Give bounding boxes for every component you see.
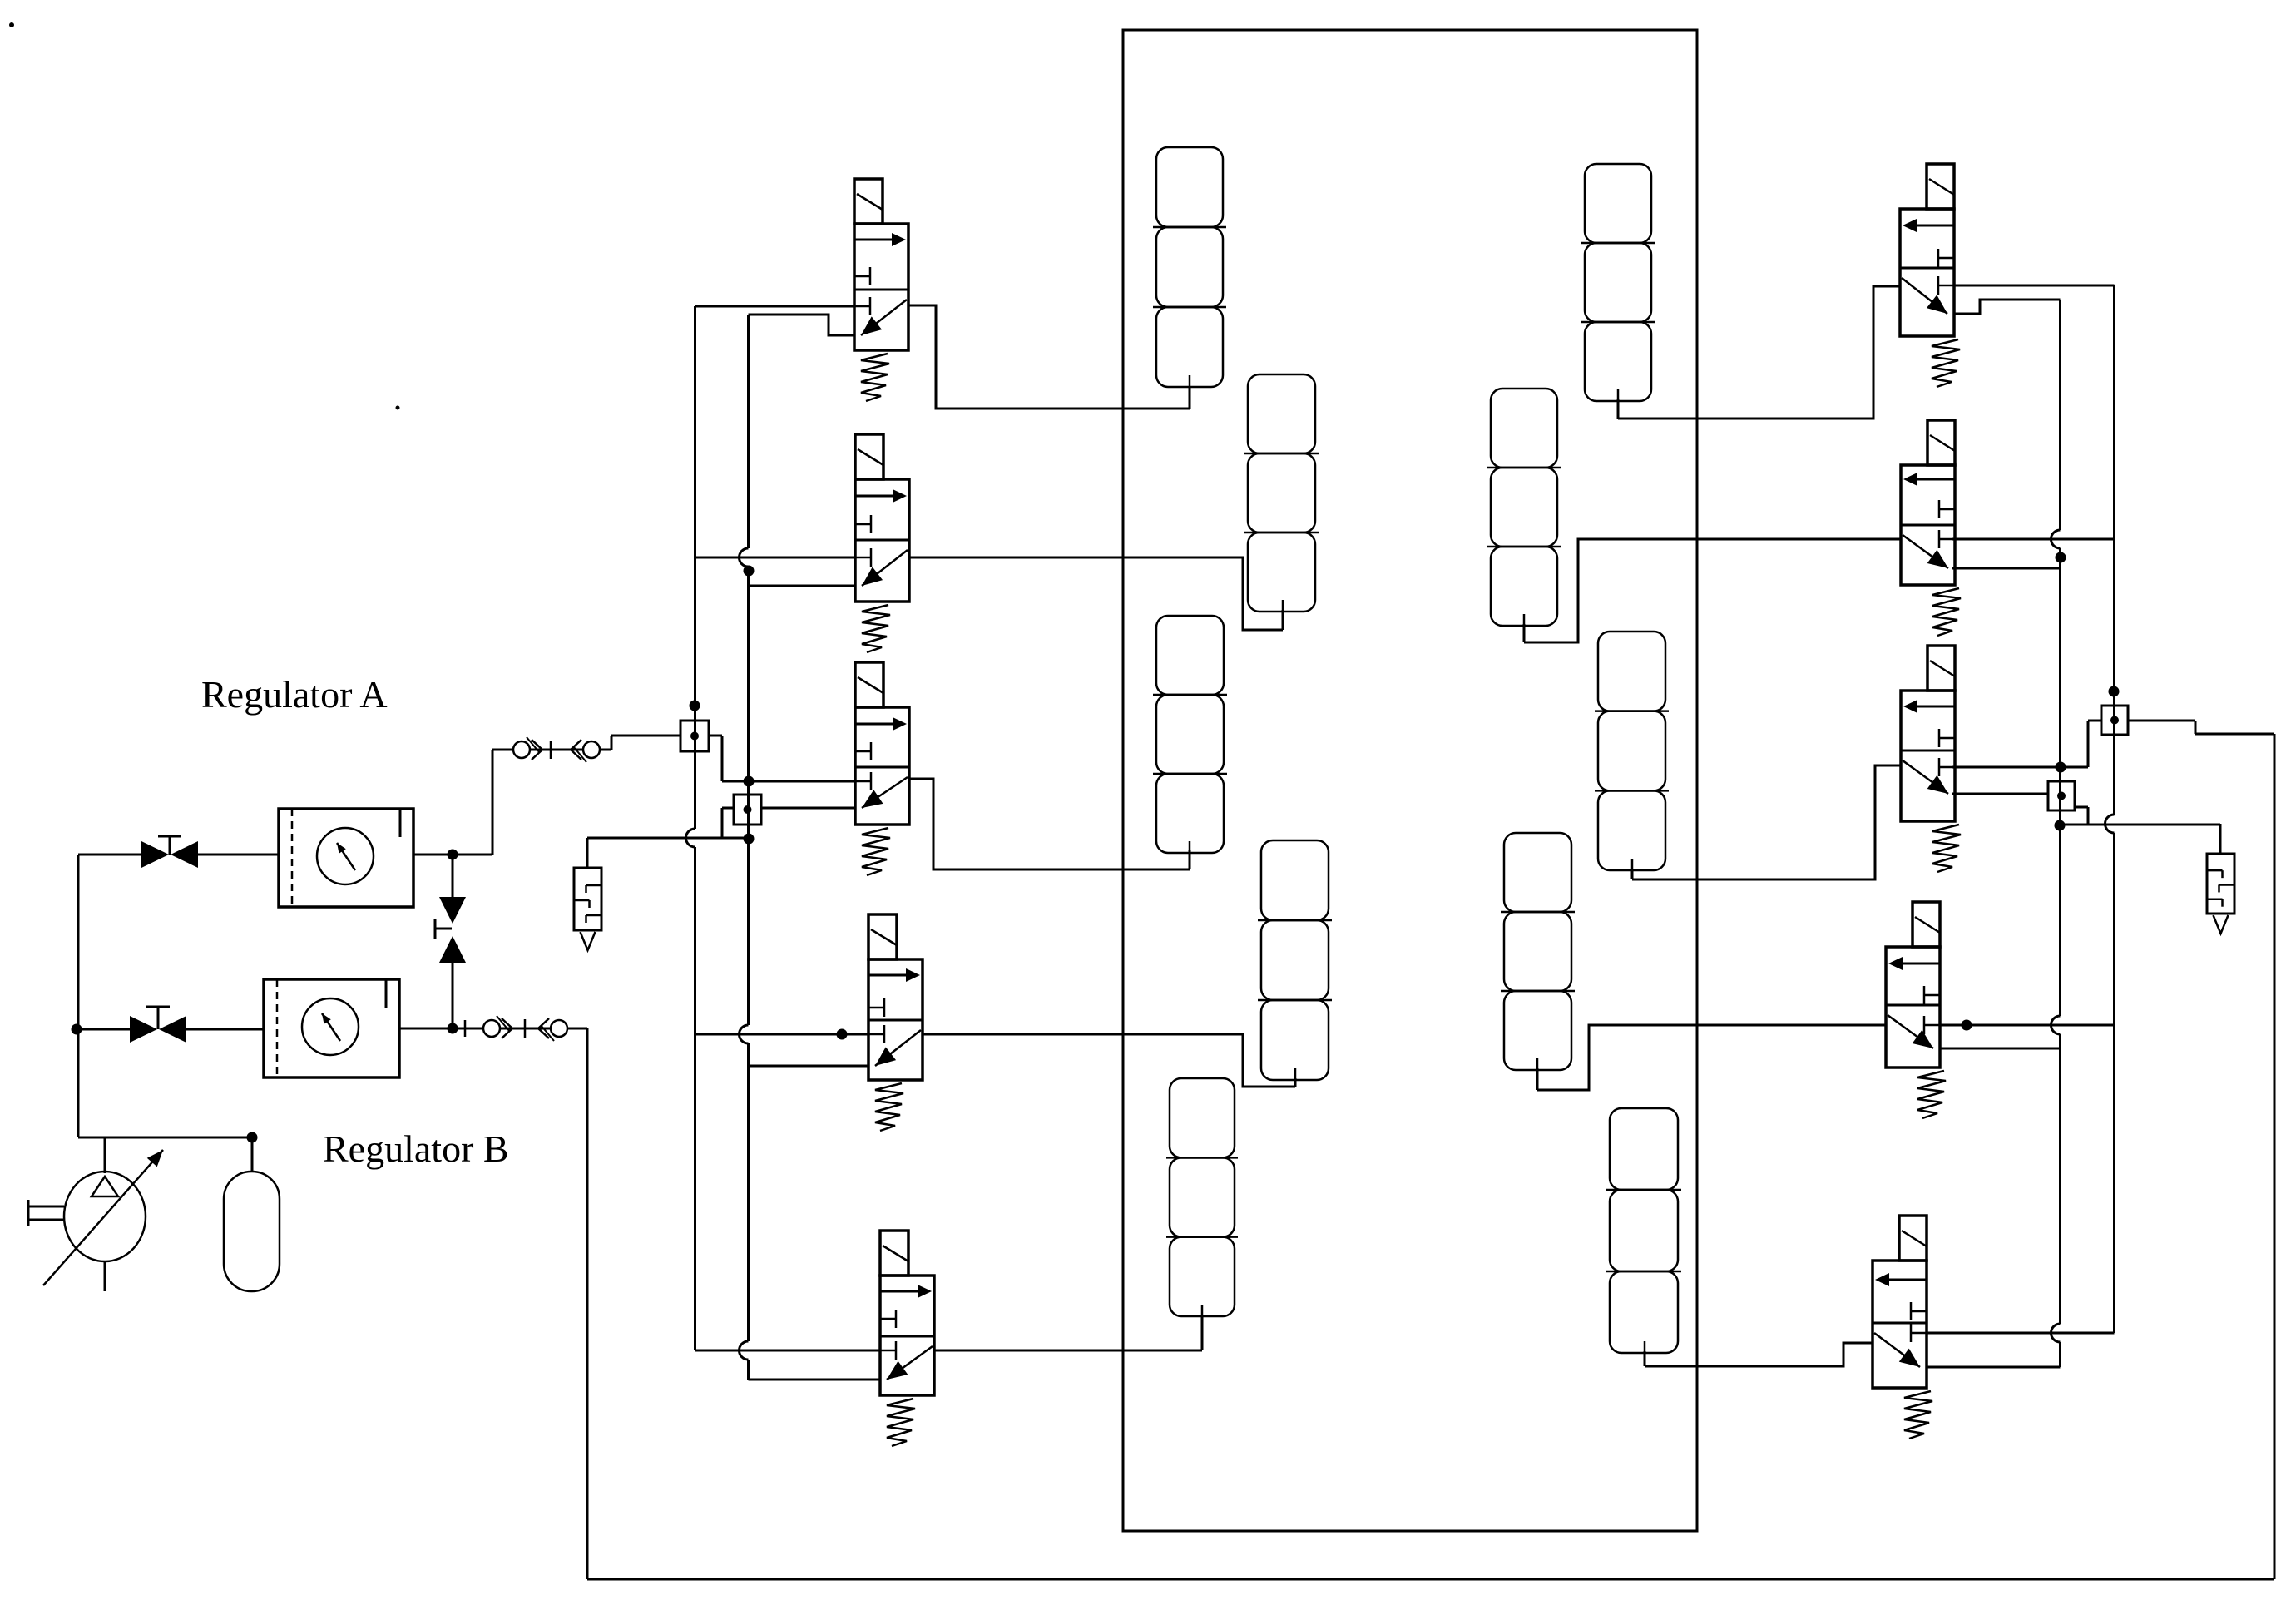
svg-text:Regulator B: Regulator B xyxy=(323,1127,509,1170)
svg-text:Regulator A: Regulator A xyxy=(201,673,388,716)
